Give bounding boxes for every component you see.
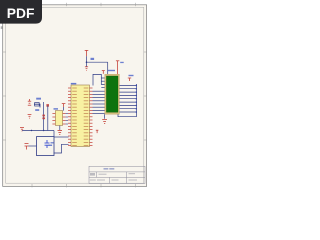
title block row line 2 <box>89 176 145 178</box>
wires P1 right to bus <box>119 85 136 112</box>
label U1 <box>71 83 77 85</box>
node VCC junction <box>86 61 88 63</box>
pin mark near reset top <box>46 104 49 107</box>
net label VCC <box>91 58 95 60</box>
connector P1 pin stubs <box>101 78 106 88</box>
power flag P-right <box>116 61 119 75</box>
PDF badge <box>0 0 42 24</box>
frame tick bottom <box>32 184 136 187</box>
wire flag to U2 <box>63 107 65 111</box>
power flag VCC top <box>85 50 89 56</box>
title block file text <box>97 180 105 181</box>
U1 pin names left column <box>72 88 77 146</box>
battery B1 <box>28 99 31 105</box>
label R1 value <box>35 109 39 111</box>
title block row line 1 <box>89 171 145 173</box>
ground symbol under U2 <box>58 130 63 134</box>
wire P1 bottom-right L <box>118 114 137 117</box>
net stub dots right <box>136 85 137 113</box>
wire loop to rail <box>53 131 55 137</box>
margin grid label <box>1 26 3 29</box>
wire C1 to loop <box>29 145 37 147</box>
wire ground rail <box>22 130 54 132</box>
wire crystal loop <box>37 137 55 156</box>
paper sheet <box>3 5 147 187</box>
IC U1 body <box>71 85 90 147</box>
title block outline <box>89 166 145 183</box>
wire VCC stem lower <box>86 56 88 66</box>
wires U2 to U1 <box>66 114 68 125</box>
U2 pins left <box>52 114 55 125</box>
node rail junction 1 <box>31 130 32 131</box>
U2 pins right <box>63 114 66 125</box>
title block divider v2 <box>126 172 128 184</box>
wire XTAL1 <box>54 136 69 138</box>
capacitor C2 <box>45 140 50 148</box>
wire VCC to connector <box>87 61 108 63</box>
ground symbol under P1 <box>102 120 107 124</box>
wire second vertical <box>47 106 49 131</box>
wire reset vertical <box>43 102 45 131</box>
switch S1 body <box>35 103 40 106</box>
pin marker P1 pin1 <box>102 71 105 74</box>
label P1 <box>108 70 115 71</box>
wire bus U1 to P1 <box>93 91 107 113</box>
power flag AVCC below junction <box>85 67 88 71</box>
connector P1 green face <box>106 76 118 112</box>
node rail junction 2 <box>43 130 44 131</box>
wire U2 to ground <box>59 125 61 130</box>
frame tick top <box>32 3 136 6</box>
title block sheet text <box>112 180 119 181</box>
power flag bus top <box>128 78 131 81</box>
op-amp U2 body <box>55 111 62 126</box>
net label bus top <box>129 75 134 76</box>
wire drop to connector top <box>107 62 109 74</box>
title text <box>104 168 109 169</box>
ground flag left cluster <box>28 114 32 118</box>
power flag above U2 <box>62 104 66 107</box>
wire right bus vertical <box>136 84 138 117</box>
sheet frame inner border <box>6 7 144 183</box>
title block date text <box>129 180 138 181</box>
pin flag IC right lower <box>96 130 99 133</box>
diode D1 wire <box>34 104 40 107</box>
frame tick left <box>3 52 6 140</box>
U1 pins left <box>68 88 71 146</box>
pin mark on reset wire <box>42 115 45 117</box>
capacitor C1 polarized <box>25 144 29 150</box>
title block divider v1 <box>96 172 98 178</box>
title block doc number text <box>99 174 107 175</box>
white backdrop <box>0 0 149 198</box>
ground symbol rail left <box>20 127 24 131</box>
net label near P-right <box>120 62 124 63</box>
title block logo cell text <box>90 173 95 176</box>
title block rev text <box>129 173 136 174</box>
label C2 <box>49 145 53 146</box>
label XTAL node <box>51 142 54 143</box>
svg-text:PDF: PDF <box>7 6 35 21</box>
wire P1 bottom stub <box>104 114 106 119</box>
wire over-top route <box>93 74 106 85</box>
label D1 <box>36 98 41 100</box>
frame tick right <box>144 52 147 140</box>
U1 pin names right column <box>84 88 89 146</box>
wire XTAL2 <box>54 144 69 153</box>
U1 pins right <box>90 88 93 146</box>
title block company text <box>90 180 96 181</box>
label U2 <box>54 108 59 109</box>
title block divider v3 <box>109 177 111 183</box>
connector P1 body <box>105 74 120 114</box>
